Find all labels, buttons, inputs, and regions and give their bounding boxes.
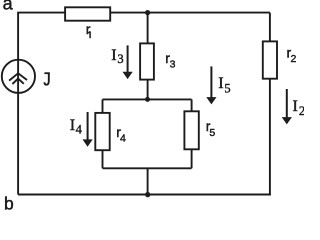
- resistor r3: [140, 43, 154, 79]
- wire top rail from node a to right corner: [17, 12, 270, 14]
- junction node bottom: [145, 192, 150, 197]
- wire parallel section bottom rail: [103, 167, 192, 169]
- svg-text:r5: r5: [206, 118, 216, 139]
- current arrow I2: [282, 89, 292, 124]
- svg-text:r3: r3: [165, 50, 175, 71]
- svg-text:I2: I2: [293, 98, 305, 118]
- wire left rail: [17, 13, 19, 195]
- svg-text:I4: I4: [70, 117, 83, 136]
- wire right rail: [269, 13, 271, 195]
- wire parallel section top rail: [103, 98, 192, 100]
- svg-text:I3: I3: [111, 47, 123, 66]
- svg-text:r2: r2: [287, 44, 297, 65]
- wire bottom rail: [18, 194, 271, 196]
- svg-text:I5: I5: [218, 75, 230, 95]
- svg-text:a: a: [3, 0, 14, 14]
- wire r3 branch: [147, 13, 149, 100]
- junction node top: [145, 10, 150, 15]
- wire r4 branch: [102, 99, 104, 168]
- current arrow I5: [206, 66, 216, 104]
- label J: [44, 73, 50, 85]
- wire center drop to bottom rail: [147, 168, 149, 194]
- resistor r2: [263, 41, 277, 78]
- resistor r4: [95, 113, 109, 150]
- svg-text:b: b: [4, 194, 14, 210]
- current arrow I4: [83, 112, 93, 147]
- svg-text:r4: r4: [116, 124, 126, 145]
- current arrow I3: [123, 45, 133, 79]
- resistor r5: [184, 111, 198, 149]
- current source J: [2, 60, 35, 93]
- resistor r1: [65, 7, 110, 20]
- wire r5 branch: [191, 99, 193, 168]
- junction node middle: [145, 97, 150, 102]
